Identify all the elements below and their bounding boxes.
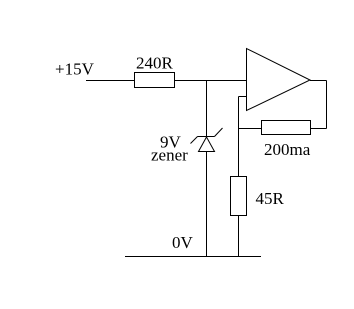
wire 0V rail <box>125 256 261 258</box>
wire output down right side <box>326 81 328 129</box>
value label 9V zener <box>151 133 188 165</box>
svg-text:200ma: 200ma <box>264 140 311 159</box>
resistor R1 240R <box>135 73 175 88</box>
wire R1 to op-amp noninverting input <box>175 80 247 82</box>
zener D1 <box>191 128 223 152</box>
wire +15V to R1 <box>86 80 134 82</box>
svg-text:240R: 240R <box>136 54 174 73</box>
wire zener anode to 0V rail <box>206 152 208 258</box>
wire into feedback resistor right side <box>310 128 327 130</box>
wire feedback resistor left to inverting node <box>239 128 262 130</box>
svg-text:+15V: +15V <box>55 60 95 79</box>
op-amp U1 <box>247 49 311 111</box>
resistor R3 45R <box>231 177 247 216</box>
svg-text:zener: zener <box>151 146 188 165</box>
wire op-amp output <box>310 80 327 82</box>
resistor R2 200ma (feedback) <box>262 121 311 135</box>
wire inverting input stub <box>239 96 247 98</box>
wire inverting input down to feedback node <box>238 97 240 177</box>
svg-text:45R: 45R <box>256 189 285 208</box>
svg-text:0V: 0V <box>172 233 194 252</box>
wire R3 to 0V rail <box>238 216 240 258</box>
wire junction node down to zener cathode <box>206 81 208 137</box>
